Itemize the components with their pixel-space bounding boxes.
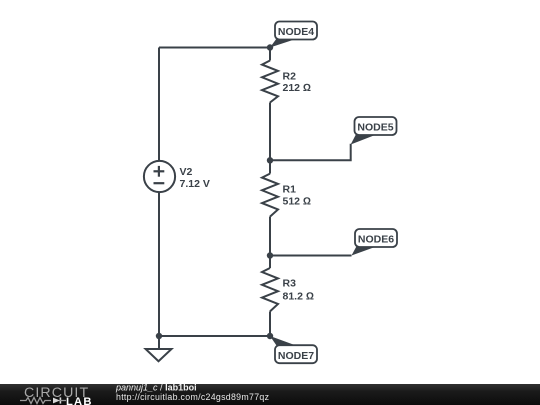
wire between R1 and R3 — [269, 217, 271, 268]
CircuitLab logo — [20, 385, 93, 405]
svg-text:http://circuitlab.com/c24gsd89: http://circuitlab.com/c24gsd89m77qz — [116, 392, 269, 402]
junction dot node A top — [267, 44, 273, 50]
wire bottom horizontal — [159, 335, 270, 337]
voltage source V2 — [144, 161, 175, 192]
wire below R3 — [269, 311, 271, 336]
label R3 value — [283, 278, 314, 303]
junction dot node B NODE5 — [267, 157, 273, 163]
footer bar — [0, 384, 540, 405]
wire right vertical R2 to R1 — [269, 48, 271, 61]
junction dot node D bottom — [267, 333, 273, 339]
svg-text:NODE7: NODE7 — [278, 350, 314, 362]
wire left vertical upper — [158, 48, 160, 162]
ground — [146, 336, 172, 361]
node NODE4 — [270, 22, 317, 48]
svg-text:NODE5: NODE5 — [357, 122, 393, 134]
svg-text:V2: V2 — [180, 166, 193, 178]
wire NODE5 branch — [270, 144, 351, 161]
node NODE7 — [270, 336, 317, 363]
label V2 value — [180, 166, 210, 190]
junction dot node C NODE6 — [267, 252, 273, 258]
svg-text:NODE6: NODE6 — [358, 234, 394, 246]
wire left vertical lower — [158, 193, 160, 337]
junction dot ground — [156, 333, 162, 339]
resistor R1 — [262, 174, 278, 217]
wire NODE6 branch — [270, 255, 352, 257]
resistor R2 — [262, 61, 278, 103]
svg-text:81.2 Ω: 81.2 Ω — [283, 290, 314, 302]
svg-text:pannuj1_c / lab1boi: pannuj1_c / lab1boi — [115, 382, 197, 392]
svg-text:NODE4: NODE4 — [278, 26, 314, 38]
svg-text:7.12 V: 7.12 V — [180, 178, 210, 190]
svg-text:LAB: LAB — [66, 396, 93, 405]
svg-text:R2: R2 — [283, 70, 297, 82]
wire between R2 and R1 — [269, 103, 271, 174]
label R2 value — [283, 70, 312, 94]
svg-text:R1: R1 — [283, 184, 297, 196]
label R1 value — [283, 184, 312, 208]
resistor R3 — [262, 268, 278, 311]
svg-text:R3: R3 — [283, 278, 297, 290]
node NODE5 — [351, 117, 397, 145]
wire top horizontal — [159, 47, 270, 49]
svg-text:512 Ω: 512 Ω — [283, 195, 312, 207]
svg-text:212 Ω: 212 Ω — [283, 82, 312, 94]
node NODE6 — [352, 229, 398, 256]
